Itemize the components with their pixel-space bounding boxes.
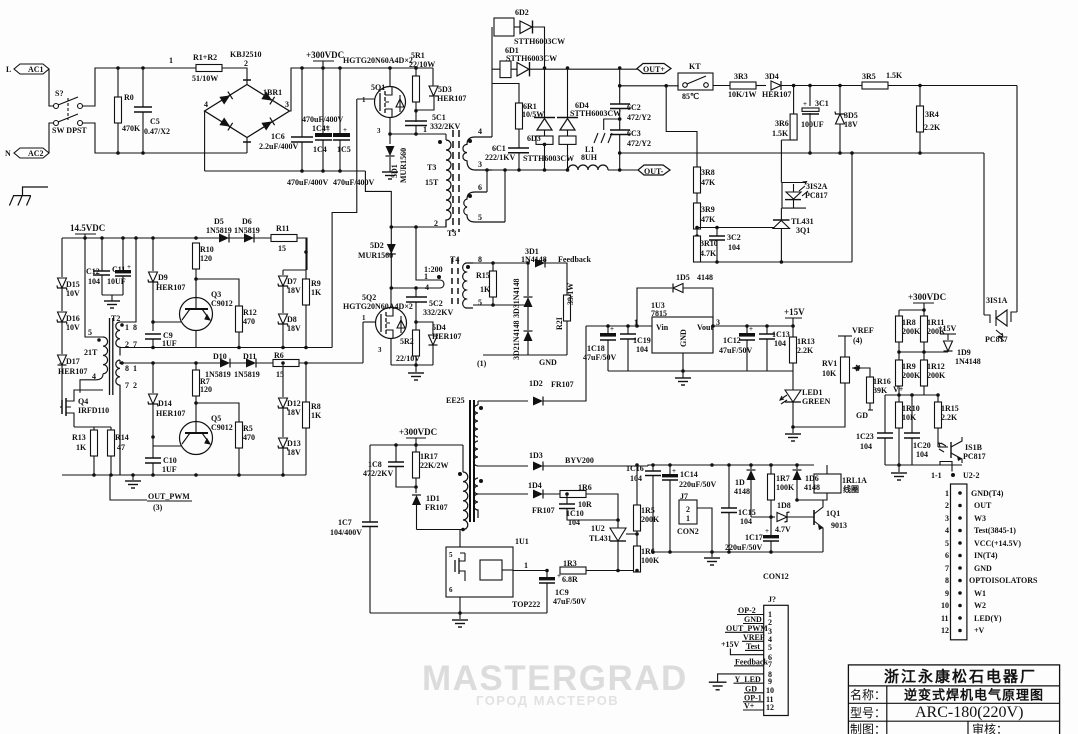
connector J7 CON12 bbox=[764, 595, 789, 716]
svg-text:120: 120 bbox=[200, 385, 212, 394]
capacitor 1C7 104/400V bbox=[330, 445, 378, 613]
svg-text:470: 470 bbox=[243, 317, 255, 326]
wire Q3 base row to R12 bbox=[196, 279, 239, 306]
resistor 1R15 2.2K bbox=[935, 393, 959, 447]
svg-text:+: + bbox=[557, 572, 561, 580]
label T4 1:200 bbox=[424, 255, 459, 292]
svg-text:1R13: 1R13 bbox=[797, 337, 815, 346]
svg-text:R15: R15 bbox=[476, 271, 490, 280]
wire 1D1 to EE25 bbox=[417, 529, 464, 531]
svg-text:39/1W: 39/1W bbox=[566, 283, 575, 305]
svg-text:VREF: VREF bbox=[743, 633, 765, 642]
connector AC1 (L) bbox=[6, 64, 49, 74]
svg-text:5: 5 bbox=[945, 539, 949, 548]
diode D5 1N5819 bbox=[206, 217, 232, 243]
svg-text:审核：: 审核： bbox=[972, 722, 1008, 734]
svg-text:1R16: 1R16 bbox=[873, 377, 891, 386]
capacitor C5 0.47/X2 bbox=[134, 66, 170, 155]
svg-text:1: 1 bbox=[133, 364, 137, 373]
wire gate drive B routing (to 5Q2) bbox=[362, 322, 364, 363]
wire 7815 output bbox=[713, 325, 793, 327]
capacitor 1C5 470uF/400V bbox=[333, 66, 351, 173]
svg-text:3D4: 3D4 bbox=[765, 72, 779, 81]
svg-text:3R4: 3R4 bbox=[925, 110, 939, 119]
svg-text:9: 9 bbox=[945, 589, 949, 598]
diode 6D3 STTH6003CW bbox=[523, 66, 574, 172]
svg-text:2.2K: 2.2K bbox=[924, 123, 941, 132]
transformer EE25 sec W3 bbox=[474, 478, 483, 518]
svg-text:R1+R2: R1+R2 bbox=[193, 53, 217, 62]
resistor R15 1K bbox=[473, 261, 497, 307]
svg-text:Test(3845-1): Test(3845-1) bbox=[974, 526, 1016, 535]
svg-text:220uF/50V: 220uF/50V bbox=[725, 543, 763, 552]
svg-text:5: 5 bbox=[88, 328, 92, 337]
svg-text:R8: R8 bbox=[311, 402, 321, 411]
diode 3D2 1N4148 bbox=[512, 320, 533, 360]
svg-text:FR107: FR107 bbox=[532, 506, 555, 515]
svg-text:1BR1: 1BR1 bbox=[263, 88, 282, 97]
svg-text:5C1: 5C1 bbox=[432, 113, 446, 122]
wire divider mid row y395 bbox=[885, 394, 938, 396]
svg-text:1: 1 bbox=[169, 56, 173, 65]
resistor R9 1K bbox=[303, 238, 323, 349]
zener D8 18V bbox=[278, 314, 301, 349]
capacitor 6C3 472/Y2 bbox=[610, 129, 651, 172]
svg-text:HER107: HER107 bbox=[437, 94, 466, 103]
capacitor 1C6 2.2uF/400V bbox=[259, 66, 313, 173]
diode 1D5 4148 bbox=[635, 273, 715, 328]
diode 1D2 FR107 bbox=[478, 326, 586, 406]
svg-text:47K: 47K bbox=[701, 215, 716, 224]
svg-text:1C20: 1C20 bbox=[913, 441, 931, 450]
svg-text:4.7V: 4.7V bbox=[775, 525, 791, 534]
svg-text:SW DPST: SW DPST bbox=[52, 126, 87, 135]
diode 1D9 1N4148 bbox=[899, 341, 981, 366]
svg-text:332/2KV: 332/2KV bbox=[423, 308, 453, 317]
svg-text:1R17: 1R17 bbox=[420, 452, 438, 461]
svg-text:线圈: 线圈 bbox=[843, 484, 859, 494]
resistor R1+R2 51/10W bbox=[192, 53, 222, 83]
capacitor 1C20 104 bbox=[904, 393, 931, 465]
svg-text:(4): (4) bbox=[853, 336, 863, 345]
svg-text:Q5: Q5 bbox=[211, 414, 221, 423]
capacitor 1C18 47uF/50V bbox=[583, 324, 617, 371]
resistor R10 120 bbox=[193, 243, 214, 281]
svg-text:+300VDC: +300VDC bbox=[399, 427, 437, 437]
wire 7815 input bbox=[586, 325, 652, 327]
svg-text:Vout: Vout bbox=[697, 323, 713, 332]
resistor 3R4 2.2K bbox=[917, 84, 942, 155]
resistor 6R1 10/5W bbox=[492, 84, 544, 149]
svg-text:IRFD110: IRFD110 bbox=[78, 406, 109, 415]
svg-text:1: 1 bbox=[424, 272, 428, 281]
wire T3 pin3 out row y170 bbox=[492, 169, 568, 171]
svg-text:1C17: 1C17 bbox=[745, 533, 763, 542]
capacitor C11 10UF bbox=[107, 238, 131, 295]
svg-text:D5: D5 bbox=[214, 217, 224, 226]
svg-text:4148: 4148 bbox=[804, 483, 820, 492]
svg-text:47uF/50V: 47uF/50V bbox=[583, 353, 617, 362]
label HGTG20N60A4D x2 (5Q1) bbox=[343, 56, 413, 92]
diode D17 HER107 bbox=[58, 355, 88, 407]
svg-text:LED(Y): LED(Y) bbox=[974, 614, 1002, 623]
svg-text:100K: 100K bbox=[641, 556, 660, 565]
svg-text:3R5: 3R5 bbox=[862, 72, 876, 81]
svg-text:KT: KT bbox=[689, 62, 701, 71]
svg-text:VREF: VREF bbox=[852, 326, 874, 335]
wire KT to 3R3 bbox=[713, 85, 730, 87]
transformer T3 secondary lower bbox=[464, 183, 505, 222]
ground divider bbox=[891, 463, 907, 480]
LED1 GREEN bbox=[780, 371, 831, 427]
transformer T4 secondary bbox=[463, 255, 482, 308]
svg-text:222/1KV: 222/1KV bbox=[485, 153, 515, 162]
wire divider bottom row y465 bbox=[885, 464, 962, 466]
svg-text:1K: 1K bbox=[311, 411, 322, 420]
svg-text:18V: 18V bbox=[287, 324, 301, 333]
regulator 1U3 7815 bbox=[634, 301, 720, 353]
svg-text:GND: GND bbox=[539, 358, 557, 367]
svg-text:HER107: HER107 bbox=[762, 90, 791, 99]
svg-text:3: 3 bbox=[478, 160, 482, 169]
svg-text:9013: 9013 bbox=[831, 521, 847, 530]
svg-text:FR107: FR107 bbox=[551, 380, 574, 389]
svg-text:22K/2W: 22K/2W bbox=[420, 461, 448, 470]
svg-text:C5: C5 bbox=[150, 117, 160, 126]
wire source row y134 bbox=[390, 133, 446, 135]
svg-text:18V: 18V bbox=[287, 448, 301, 457]
wire 1R6b bottom to row bbox=[636, 553, 638, 571]
earth ground top-left bbox=[9, 187, 48, 206]
label OUT_PWM (3) bbox=[110, 475, 192, 512]
diode 5D4 HER107 bbox=[416, 322, 461, 365]
svg-text:1: 1 bbox=[945, 489, 949, 498]
capacitor C10 1UF bbox=[145, 447, 177, 477]
svg-text:+: + bbox=[610, 325, 614, 333]
svg-text:472/Y2: 472/Y2 bbox=[627, 113, 651, 122]
svg-text:6: 6 bbox=[945, 551, 949, 560]
svg-text:V+: V+ bbox=[744, 702, 755, 711]
svg-text:7815: 7815 bbox=[651, 309, 667, 318]
svg-text:1.5K: 1.5K bbox=[886, 71, 903, 80]
resistor 1R16 39K bbox=[860, 368, 891, 410]
ground TOP222 bbox=[452, 611, 468, 627]
wire 5C2 row y288 bbox=[391, 287, 416, 289]
svg-text:(3): (3) bbox=[153, 503, 163, 512]
svg-text:T3: T3 bbox=[447, 229, 456, 238]
svg-text:HER107: HER107 bbox=[58, 367, 87, 376]
svg-text:7: 7 bbox=[125, 381, 129, 390]
wire 5Q2 drain bbox=[390, 288, 392, 308]
svg-text:104: 104 bbox=[740, 517, 752, 526]
svg-text:104: 104 bbox=[860, 442, 872, 451]
svg-text:10V: 10V bbox=[66, 323, 80, 332]
svg-text:3IS2A: 3IS2A bbox=[806, 182, 828, 191]
svg-text:GREEN: GREEN bbox=[802, 397, 831, 406]
svg-text:100UF: 100UF bbox=[801, 120, 824, 129]
svg-text:10: 10 bbox=[766, 686, 774, 695]
zener 3D5 18V bbox=[835, 84, 858, 155]
wire top rail to R1+R2 bbox=[143, 67, 197, 69]
resistor 3R10 4.7K bbox=[694, 234, 718, 262]
svg-text:1N5819: 1N5819 bbox=[206, 226, 232, 235]
svg-text:型号：: 型号： bbox=[850, 706, 886, 720]
svg-text:Q3: Q3 bbox=[211, 290, 221, 299]
svg-text:1D: 1D bbox=[735, 478, 745, 487]
resistor 3R6 1.5K bbox=[772, 84, 797, 140]
svg-text:3: 3 bbox=[945, 514, 949, 523]
diode 5D1 MUR1560 bbox=[386, 134, 409, 183]
wire flyback top row y445 bbox=[370, 444, 463, 446]
svg-text:5Q2: 5Q2 bbox=[362, 293, 376, 302]
zener D12 18V bbox=[278, 361, 301, 437]
resistor R11 15 bbox=[271, 224, 307, 270]
svg-text:R5: R5 bbox=[243, 424, 253, 433]
connector J7 CON2 bbox=[677, 492, 712, 552]
labels 470uF/400V bottom bbox=[287, 178, 375, 187]
label VREF (4) bbox=[838, 326, 874, 345]
capacitor 1C9 47uF/50V bbox=[539, 571, 587, 614]
svg-text:200K: 200K bbox=[902, 327, 921, 336]
transformer T2 sec lower bbox=[116, 360, 137, 475]
resistor R21 39/1W bbox=[555, 283, 575, 355]
svg-text:4: 4 bbox=[204, 100, 208, 109]
mosfet Q4 IRFD110 bbox=[60, 390, 109, 427]
svg-text:R11: R11 bbox=[276, 224, 289, 233]
svg-text:21T: 21T bbox=[84, 348, 98, 357]
svg-text:RV1: RV1 bbox=[822, 359, 837, 368]
svg-text:3R9: 3R9 bbox=[701, 205, 715, 214]
svg-text:47uF/50V: 47uF/50V bbox=[553, 597, 587, 606]
svg-text:6: 6 bbox=[478, 183, 482, 192]
diode 1D1 FR107 bbox=[412, 494, 448, 530]
svg-text:+: + bbox=[672, 467, 676, 475]
svg-text:1K: 1K bbox=[480, 285, 491, 294]
wire neg rail down x363 bbox=[365, 171, 391, 227]
wire right vertical x1017 bbox=[1016, 86, 1018, 301]
switcher 1U1 TOP222 bbox=[446, 530, 540, 614]
svg-text:+: + bbox=[343, 126, 347, 134]
svg-text:104: 104 bbox=[774, 339, 786, 348]
svg-text:D15: D15 bbox=[66, 280, 80, 289]
snubber block 6D2 bbox=[494, 8, 565, 68]
wire T3 pin4 riser x492 bbox=[491, 27, 493, 137]
svg-text:W3: W3 bbox=[974, 514, 986, 523]
switch SW DPST S? bbox=[52, 89, 87, 135]
svg-text:+15V: +15V bbox=[721, 640, 740, 649]
svg-text:1D3: 1D3 bbox=[529, 451, 543, 460]
svg-text:TL431: TL431 bbox=[791, 217, 814, 226]
resistor R7 120 bbox=[193, 361, 213, 405]
resistor 1R10 10K bbox=[896, 393, 920, 465]
svg-text:PC817: PC817 bbox=[805, 191, 828, 200]
svg-text:12: 12 bbox=[941, 626, 949, 635]
resistor 1R12 200K bbox=[921, 360, 947, 395]
svg-text:R12: R12 bbox=[243, 308, 257, 317]
svg-text:3R6: 3R6 bbox=[775, 119, 789, 128]
svg-text:OUT-: OUT- bbox=[644, 167, 664, 176]
svg-text:8: 8 bbox=[945, 576, 949, 585]
chassis ground near 6C3 bbox=[594, 117, 622, 143]
svg-text:OUT+: OUT+ bbox=[643, 65, 665, 74]
wire TL431 right x852 bbox=[851, 153, 853, 262]
diode 1D3 BYV200 bbox=[478, 451, 648, 471]
svg-text:5R1: 5R1 bbox=[411, 51, 425, 60]
diode 1D6 4148 bbox=[793, 465, 821, 502]
zener D16 10V bbox=[57, 312, 80, 354]
svg-text:2: 2 bbox=[244, 59, 248, 68]
resistor 1R13 2.2K bbox=[790, 324, 815, 371]
svg-text:J?: J? bbox=[768, 595, 776, 604]
svg-text:D9: D9 bbox=[158, 273, 168, 282]
diode D11 1N5819 bbox=[234, 352, 260, 379]
svg-text:22/10W: 22/10W bbox=[409, 60, 435, 69]
svg-text:1D8: 1D8 bbox=[777, 501, 791, 510]
wire negative rail bbox=[205, 170, 366, 172]
svg-text:OUT_PWM: OUT_PWM bbox=[148, 492, 190, 501]
diode 1D4 FR107 bbox=[478, 481, 560, 515]
svg-text:1N5819: 1N5819 bbox=[234, 226, 260, 235]
svg-text:Test: Test bbox=[746, 642, 760, 651]
svg-text:W2: W2 bbox=[974, 601, 986, 610]
wire T4 hairpin primary bbox=[391, 227, 444, 288]
potentiometer RV1 10K bbox=[822, 336, 860, 383]
wire bridge plus to +300V rail bbox=[290, 68, 434, 111]
svg-text:1R12: 1R12 bbox=[927, 362, 945, 371]
wire 15V rail y465 bbox=[648, 465, 814, 466]
resistor R14 47 bbox=[108, 430, 129, 475]
ground driver bottom bbox=[125, 473, 141, 488]
svg-text:+: + bbox=[749, 325, 753, 333]
svg-text:C10: C10 bbox=[163, 456, 177, 465]
svg-text:PC817: PC817 bbox=[985, 335, 1008, 344]
svg-text:2: 2 bbox=[133, 381, 137, 390]
wire 5Q2 gate bbox=[363, 321, 376, 323]
resistor R12 470 bbox=[236, 306, 257, 349]
svg-text:104: 104 bbox=[728, 243, 740, 252]
resistor 1R5 200K bbox=[634, 463, 661, 546]
transformer EE25 sec W1 bbox=[474, 401, 483, 437]
svg-text:2.2uF/400V: 2.2uF/400V bbox=[259, 142, 299, 151]
wire 5Q2 source bbox=[390, 339, 392, 365]
svg-text:47uF/50V: 47uF/50V bbox=[719, 346, 753, 355]
svg-text:STTH6003CW: STTH6003CW bbox=[514, 37, 565, 46]
svg-text:+300VDC: +300VDC bbox=[908, 292, 946, 302]
svg-text:1R10: 1R10 bbox=[902, 404, 920, 413]
capacitor C9 1UF bbox=[145, 331, 177, 349]
svg-text:1C14: 1C14 bbox=[680, 470, 698, 479]
svg-text:2: 2 bbox=[945, 501, 949, 510]
svg-text:6D3: 6D3 bbox=[527, 134, 541, 143]
svg-text:1D9: 1D9 bbox=[957, 348, 971, 357]
wire driver bottom row y475 bbox=[62, 474, 306, 476]
svg-text:+15V: +15V bbox=[938, 324, 957, 333]
svg-text:名称：: 名称： bbox=[850, 687, 886, 702]
svg-text:18V: 18V bbox=[287, 286, 301, 295]
diode 5D2 MUR1560 bbox=[358, 225, 396, 290]
resistor R5 470 bbox=[236, 422, 256, 477]
svg-text:1UF: 1UF bbox=[162, 339, 177, 348]
svg-text:8: 8 bbox=[133, 323, 137, 332]
capacitor 1C14 220uF/50V bbox=[662, 465, 717, 552]
J7 pin labels bbox=[709, 606, 769, 711]
wire L1 to OUT- bbox=[608, 169, 638, 171]
label GD bbox=[856, 410, 873, 420]
svg-text:1: 1 bbox=[362, 96, 366, 104]
svg-text:470uF/400V: 470uF/400V bbox=[302, 115, 344, 124]
svg-text:D8: D8 bbox=[287, 315, 297, 324]
svg-text:R2I: R2I bbox=[555, 317, 564, 330]
ground under LED1 bbox=[785, 425, 801, 441]
svg-text:C11: C11 bbox=[112, 265, 125, 274]
svg-text:D14: D14 bbox=[158, 399, 172, 408]
svg-text:10: 10 bbox=[941, 601, 949, 610]
svg-text:D13: D13 bbox=[287, 439, 301, 448]
label +300VDC flyback bbox=[399, 427, 437, 445]
wire 1D7 join base bbox=[751, 516, 771, 518]
svg-text:AC1: AC1 bbox=[28, 65, 44, 74]
svg-text:200K: 200K bbox=[902, 371, 921, 380]
svg-text:6D2: 6D2 bbox=[515, 8, 529, 17]
label 1-1 U2-2 bbox=[931, 471, 979, 480]
diode 3D4 HER107 bbox=[756, 72, 862, 99]
svg-text:22/10V: 22/10V bbox=[396, 354, 420, 363]
capacitor 3C1 100UF bbox=[801, 84, 829, 155]
resistor R0 470K bbox=[115, 66, 142, 155]
svg-text:332/2KV: 332/2KV bbox=[430, 122, 460, 131]
svg-text:D16: D16 bbox=[66, 314, 80, 323]
svg-text:GD: GD bbox=[745, 685, 757, 694]
svg-text:C9012: C9012 bbox=[211, 423, 233, 432]
svg-text:浙江永康松石电器厂: 浙江永康松石电器厂 bbox=[884, 668, 1037, 686]
wire Q5 base row to R5 bbox=[196, 403, 239, 422]
svg-text:1K: 1K bbox=[311, 288, 322, 297]
svg-text:.: . bbox=[59, 357, 61, 366]
diode 5D3 HER107 bbox=[414, 68, 466, 122]
transformer T3 core bbox=[453, 130, 459, 232]
svg-text:1D4: 1D4 bbox=[528, 481, 542, 490]
zener D7 18V bbox=[278, 270, 306, 313]
svg-text:D7: D7 bbox=[287, 277, 297, 286]
resistor 1R17 22K/2W bbox=[413, 445, 449, 493]
svg-text:D17: D17 bbox=[66, 357, 80, 366]
transformer T2 sec upper bbox=[116, 238, 137, 355]
wire 5R1 bottom bbox=[415, 102, 417, 110]
capacitor 1C19 104 bbox=[620, 324, 651, 371]
svg-text:STTH6003CW: STTH6003CW bbox=[570, 109, 621, 118]
svg-text:+300VDC: +300VDC bbox=[306, 50, 344, 60]
svg-text:5D3: 5D3 bbox=[438, 85, 452, 94]
svg-text:470uF/400V: 470uF/400V bbox=[287, 178, 329, 187]
capacitor 3C2 104 bbox=[697, 226, 774, 264]
svg-text:1R15: 1R15 bbox=[941, 404, 959, 413]
svg-text:IN(T4): IN(T4) bbox=[974, 551, 998, 560]
wire bridge bottom to AC rail bbox=[246, 138, 248, 154]
connector AC2 (N) bbox=[5, 148, 49, 158]
capacitor 1C8 472/2KV bbox=[363, 445, 416, 487]
svg-text:OPTOISOLATORS: OPTOISOLATORS bbox=[969, 576, 1038, 585]
svg-text:KBJ2510: KBJ2510 bbox=[230, 50, 262, 59]
svg-text:12: 12 bbox=[766, 703, 774, 712]
transformer EE25 core bbox=[470, 400, 474, 522]
transistor Q5 C9012 bbox=[153, 403, 233, 455]
svg-text:1C19: 1C19 bbox=[633, 336, 651, 345]
svg-text:LED1: LED1 bbox=[802, 388, 822, 397]
svg-text:15: 15 bbox=[278, 244, 286, 253]
svg-text:4148: 4148 bbox=[697, 273, 713, 282]
label +300VDC right bbox=[908, 292, 946, 310]
svg-text:IS1B: IS1B bbox=[965, 443, 983, 452]
